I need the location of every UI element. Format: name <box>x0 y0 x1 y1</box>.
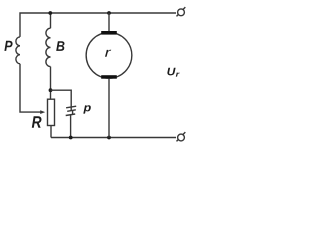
rheostat wiper arrow <box>40 110 45 114</box>
brush top <box>101 31 117 35</box>
label R <box>32 116 42 128</box>
junction dot node B-top <box>48 11 52 15</box>
inductor P <box>16 37 20 64</box>
label P <box>4 41 12 51</box>
junction dot rotor-bottom <box>107 136 111 140</box>
rotor circle r <box>86 32 132 78</box>
resistor R <box>48 99 55 125</box>
wire bottom rail <box>51 137 176 139</box>
label U subscript r <box>176 73 180 77</box>
connector p lower crossbar <box>66 114 76 116</box>
wire rotor bottom stub <box>108 79 110 138</box>
wire from connector p down to bottom rail <box>70 115 72 138</box>
label r rotor <box>105 50 111 57</box>
label B <box>56 41 64 51</box>
inductor B <box>46 28 51 66</box>
brush bottom <box>101 75 117 79</box>
connector p pin segment <box>72 110 74 114</box>
terminal top <box>177 7 186 16</box>
connector p upper crossbar 1 <box>66 106 76 108</box>
label p <box>83 105 91 113</box>
junction dot p-bottom <box>69 136 73 140</box>
label U <box>167 68 175 76</box>
wire rotor top stub <box>108 13 110 31</box>
junction dot rotor-top <box>107 11 111 15</box>
connector p upper crossbar 2 <box>67 110 76 112</box>
wire B stub from top rail <box>50 13 52 28</box>
junction dot node p-branch <box>49 88 53 92</box>
wire top rail with left corner down to coil P <box>20 13 176 37</box>
wire from B bottom to resistor R top <box>50 67 52 100</box>
wire p branch horizontal from node to connector <box>51 90 72 110</box>
wire from P bottom to rheostat arrow line <box>20 64 41 112</box>
terminal bottom <box>177 132 186 141</box>
wire R bottom stub <box>50 126 52 138</box>
